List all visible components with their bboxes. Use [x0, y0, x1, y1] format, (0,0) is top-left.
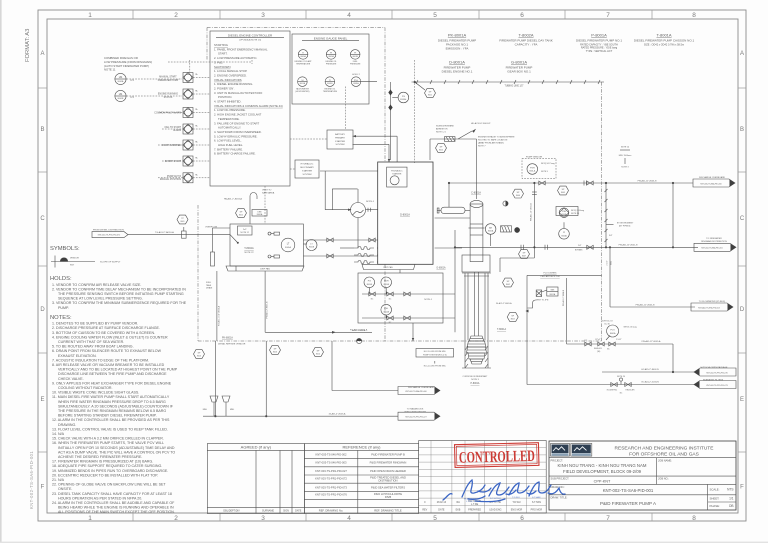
svg-text:DRAIN: DRAIN	[206, 287, 213, 290]
PI bubble	[559, 229, 570, 240]
svg-text:ONSITE.: ONSITE.	[58, 487, 72, 491]
svg-text:DATE: DATE	[295, 510, 302, 513]
svg-text:PSH: PSH	[530, 167, 535, 169]
svg-text:STATUS: STATUS	[164, 96, 173, 99]
svg-text:PRESSURE: PRESSURE	[326, 64, 337, 66]
svg-text:8001B: 8001B	[309, 247, 315, 249]
svg-text:ACT AS A DUMP VALVE. THE PIC W: ACT AS A DUMP VALVE. THE PIC WILL HAVE A…	[58, 450, 175, 454]
svg-text:14. N/A: 14. N/A	[52, 432, 65, 436]
svg-text:A: A	[740, 51, 744, 57]
svg-text:8002: 8002	[506, 284, 510, 286]
svg-text:10. VISIBLE WASTE CONE INCLUDE: 10. VISIBLE WASTE CONE INCLUDE SIGHT GLA…	[52, 391, 139, 395]
inline filter/valve	[182, 231, 187, 238]
svg-text:KNT-002-TS-SA6-PID-001: KNT-002-TS-SA6-PID-001	[29, 451, 34, 509]
svg-text:NOTE 9: NOTE 9	[541, 171, 548, 173]
svg-text:TO FLOWMETER (FT-8001): TO FLOWMETER (FT-8001)	[699, 301, 726, 303]
svg-text:SCALE:: SCALE:	[710, 488, 720, 492]
svg-text:NOTE 3: NOTE 3	[471, 379, 479, 381]
vertical drains from boundary	[214, 341, 216, 416]
pump basket (stacked cone impeller)	[469, 336, 484, 341]
svg-text:8001A: 8001A	[488, 230, 494, 233]
svg-text:1. VENDOR TO CONFIRM AIR REL: 1. VENDOR TO CONFIRM AIR RELEASE VALVE S…	[52, 283, 141, 287]
dashed signal from note to logic column	[168, 61, 252, 63]
svg-text:6: 6	[520, 515, 524, 522]
grid row letters right	[740, 51, 745, 491]
svg-text:PCV: PCV	[610, 329, 615, 331]
svg-text:DISCHARGE OVERBOARD: DISCHARGE OVERBOARD	[699, 176, 726, 179]
svg-text:B: B	[40, 127, 44, 133]
svg-text:FROM DIESEL DISTRIBUTION: FROM DIESEL DISTRIBUTION	[93, 230, 124, 232]
svg-text:5. TO BE ROUTED AWAY FROM BO: 5. TO BE ROUTED AWAY FROM BOAT LANDING.	[52, 345, 134, 349]
svg-text:SECONDARY: SECONDARY	[300, 166, 314, 169]
dashed vendor boundary around controller/panel	[207, 28, 385, 342]
svg-text:RESEARCH AND ENGINEERING INSTI: RESEARCH AND ENGINEERING INSTITUTE	[615, 446, 714, 452]
line y=372 from hypochlorite package	[602, 371, 694, 373]
svg-text:8. AIR RELEASE VALVE OR: 8. AIR RELEASE VALVE OR VACUUM BREAKER T…	[52, 363, 165, 367]
svg-text:ACHIEVE THE DESIRED FIREWATER: ACHIEVE THE DESIRED FIREWATER PRESSURE.	[58, 455, 142, 459]
svg-text:NOTE 4: NOTE 4	[424, 299, 432, 301]
svg-text:NOTE 12: NOTE 12	[241, 232, 250, 234]
svg-text:DETAIL REF/SEE VENDOR: DETAIL REF/SEE VENDOR	[218, 343, 246, 346]
svg-text:6. DRAIN POINT FROM SILEN: 6. DRAIN POINT FROM SILENCER ROUTE TO EX…	[52, 349, 162, 353]
svg-text:8001-A: 8001-A	[529, 170, 536, 173]
note text combined fire/gas	[104, 56, 152, 71]
dashed connectors to controller	[158, 78, 210, 178]
column ticks top	[133, 10, 652, 19]
svg-text:ENG MGR: ENG MGR	[511, 508, 523, 511]
cooling water stub at line start	[448, 183, 450, 207]
svg-text:FW-A01-12"-8003-N: FW-A01-12"-8003-N	[638, 179, 657, 182]
svg-text:2. VENDOR TO CONFIRM TIME DE: 2. VENDOR TO CONFIRM TIME DELAY MECHANIS…	[52, 287, 186, 291]
svg-text:SIGN: SIGN	[283, 510, 289, 513]
svg-text:DIESEL FIREWATER PUMP NO.1: DIESEL FIREWATER PUMP NO.1	[576, 39, 622, 43]
svg-text:PUMP VENDOR: PUMP VENDOR	[526, 157, 543, 159]
AE bubble	[485, 224, 496, 235]
logo petrovietnam 1	[551, 444, 570, 457]
svg-text:DIVB: DIVB	[385, 495, 391, 499]
svg-text:2. DISCHARGE PRESSURE AT SUR: 2. DISCHARGE PRESSURE AT SURFACE DISCHAR…	[52, 326, 160, 330]
svg-text:8003: 8003	[511, 318, 515, 320]
svg-text:9. ONLY APPLIES FOR HEAT E: 9. ONLY APPLIES FOR HEAT EXCHANGER TYPE …	[52, 381, 172, 385]
svg-text:NOTE 1, 6: NOTE 1, 6	[436, 132, 447, 134]
svg-text:3. BOTTOM OF CAISSON TO BE C: 3. BOTTOM OF CAISSON TO BE COVERED WITH …	[52, 331, 155, 335]
svg-text:8013: 8013	[197, 355, 201, 357]
svg-text:1: 1	[88, 12, 92, 19]
svg-text:4: 4	[347, 12, 351, 19]
svg-text:HS: HS	[119, 92, 123, 96]
svg-text:NOTE 16, 18: NOTE 16, 18	[601, 321, 612, 323]
svg-text:FAIL TO START: FAIL TO START	[165, 126, 182, 129]
svg-text:16, 30: 16, 30	[604, 323, 609, 325]
svg-text:1/1: 1/1	[729, 497, 734, 501]
logic diamond column	[183, 73, 193, 83]
svg-text:CONTROLLED: CONTROLLED	[459, 448, 535, 467]
exit line 3: y=307 to flowmeter	[610, 306, 695, 308]
flex hoses to engine	[354, 247, 374, 250]
svg-text:JOB NAME:: JOB NAME:	[658, 458, 672, 462]
dashed boundary bottom	[198, 340, 602, 342]
svg-text:8001A: 8001A	[550, 293, 556, 296]
svg-text:STARTER: STARTER	[302, 169, 312, 172]
svg-text:8008-003: 8008-003	[594, 348, 602, 350]
svg-text:PG: PG	[368, 281, 371, 283]
svg-text:PUMP SYSTEM (HOLD 3): PUMP SYSTEM (HOLD 3)	[423, 354, 447, 356]
svg-text:SYMBOLS:: SYMBOLS:	[50, 246, 80, 252]
svg-text:C: C	[40, 216, 45, 222]
svg-text:REFERENCE (if any): REFERENCE (if any)	[342, 445, 381, 450]
svg-text:S.T.HAN: S.T.HAN	[532, 501, 541, 504]
svg-text:8015: 8015	[439, 149, 443, 151]
svg-text:LEAD ENG: LEAD ENG	[489, 508, 501, 511]
svg-text:SIMULTANEOUSLY. A 20 SECONDS: SIMULTANEOUSLY. A 20 SECONDS (ADJUSTABLE…	[58, 404, 174, 408]
svg-text:HYDRAULIC: HYDRAULIC	[391, 170, 403, 173]
svg-text:T-8002A: T-8002A	[518, 33, 533, 38]
heat exchanger horizontal vessel	[441, 207, 465, 213]
svg-text:KNT-002-TS-PR1-PID-073: KNT-002-TS-PR1-PID-073	[706, 385, 727, 387]
svg-text:COMMON FAULT ALARM: COMMON FAULT ALARM	[154, 112, 181, 115]
svg-text:NOTE 7: NOTE 7	[478, 146, 486, 148]
starter system connection lines	[353, 135, 398, 137]
svg-text:24. ALARM IN THE CONTROLLER: 24. ALARM IN THE CONTROLLER SHALL BE AUD…	[52, 501, 175, 505]
line y=384.5 from seawater filters	[527, 384, 694, 386]
svg-text:13. FLOAT LEVEL CONTROL VALVE: 13. FLOAT LEVEL CONTROL VALVE IS USED TO…	[52, 427, 168, 431]
svg-text:3/4": 3/4"	[609, 235, 613, 237]
exit line 2: y=247 to firewater ringmain	[455, 246, 698, 248]
svg-text:ENGINE RUNNING: ENGINE RUNNING	[158, 94, 178, 96]
svg-text:PUMP.: PUMP.	[58, 306, 69, 310]
level transmitters	[281, 238, 295, 252]
row ticks right	[738, 88, 746, 452]
recirculation loop	[566, 278, 568, 344]
svg-text:P&ID SEA WATER FILTERS: P&ID SEA WATER FILTERS	[371, 485, 405, 489]
svg-text:8. BATTERY CHARGE FAILURE.: 8. BATTERY CHARGE FAILURE.	[214, 152, 256, 156]
hexagons on boundary	[194, 350, 205, 359]
svg-text:VENT TO JPN: VENT TO JPN	[536, 299, 549, 301]
svg-text:8014: 8014	[316, 353, 320, 355]
svg-text:3. UNIT IN MANUAL/AUTO/TEST/O: 3. UNIT IN MANUAL/AUTO/TEST/OFF	[214, 91, 263, 95]
svg-text:2: 2	[174, 515, 178, 522]
svg-text:XO-A01-2"-5203-N: XO-A01-2"-5203-N	[641, 381, 659, 384]
svg-text:ELC-10.09D FROM MSL: ELC-10.09D FROM MSL	[424, 366, 447, 368]
svg-text:C-8001A: C-8001A	[471, 192, 481, 195]
svg-text:KNT-002-TS-SA6-PID-001: KNT-002-TS-SA6-PID-001	[603, 488, 654, 493]
svg-text:NOTE 22: NOTE 22	[244, 252, 254, 254]
svg-text:NOTES:: NOTES:	[50, 315, 72, 321]
svg-text:PROJECT:: PROJECT:	[551, 458, 564, 462]
svg-text:8001: 8001	[181, 221, 185, 223]
svg-text:PSE: PSE	[562, 211, 567, 213]
svg-text:KNT-003-TS-PR1-PID-072: KNT-003-TS-PR1-PID-072	[315, 476, 347, 480]
svg-text:FORMAT: A3: FORMAT: A3	[25, 29, 31, 62]
svg-text:HY-AF5-2"-8402-N: HY-AF5-2"-8402-N	[641, 368, 659, 371]
svg-text:COOLING WITHOUT RADIATOR.: COOLING WITHOUT RADIATOR.	[58, 386, 113, 390]
svg-text:MANUAL START: MANUAL START	[159, 76, 177, 79]
svg-text:G-8001A: G-8001A	[511, 60, 527, 65]
svg-text:HS: HS	[119, 75, 123, 79]
fuel line into engine	[303, 239, 377, 241]
svg-text:STARTER: STARTER	[335, 140, 345, 143]
svg-text:EMISSION : YFA: EMISSION : YFA	[446, 47, 469, 51]
svg-text:DBL/DEPT/DIV: DBL/DEPT/DIV	[223, 510, 240, 513]
svg-text:6: 6	[520, 12, 524, 19]
svg-text:CURRENT WITH THAT OF SEA WATER: CURRENT WITH THAT OF SEA WATER.	[58, 340, 124, 344]
svg-text:PREPARED: PREPARED	[468, 508, 481, 511]
svg-text:T-8001A: T-8001A	[656, 33, 671, 38]
svg-text:ENGINE GAUGE PANEL: ENGINE GAUGE PANEL	[314, 37, 348, 41]
svg-text:8001A: 8001A	[285, 246, 291, 249]
svg-text:DIESEL ENGINE CONTROLLER: DIESEL ENGINE CONTROLLER	[228, 34, 273, 38]
svg-text:PRESSURE: PRESSURE	[350, 64, 361, 66]
svg-text:REF. DRAWING TITLE: REF. DRAWING TITLE	[374, 509, 402, 513]
svg-text:VENT TO: VENT TO	[262, 190, 272, 192]
svg-text:ALARM: ALARM	[173, 129, 181, 132]
caisson outer walls	[464, 273, 466, 368]
SP hexagon below junction	[519, 250, 530, 259]
svg-text:SAFE AREA: SAFE AREA	[262, 192, 275, 195]
svg-text:KNT-002-TS-PR1-PID-072: KNT-002-TS-PR1-PID-072	[98, 235, 120, 237]
svg-text:19. MINIMIZED BENDS IN PIPES R: 19. MINIMIZED BENDS IN PIPES RUN TO OVER…	[52, 469, 168, 473]
svg-text:HOLD 2: HOLD 2	[352, 74, 360, 76]
svg-text:8011: 8011	[428, 94, 432, 96]
svg-text:INITIALLY OPEN FOR 10 SECONDS: INITIALLY OPEN FOR 10 SECONDS (ADJUSTABL…	[58, 446, 175, 450]
svg-text:KNT-003-TS-PR1-PID-076: KNT-003-TS-PR1-PID-076	[315, 493, 347, 497]
gauge bubbles row 2	[295, 77, 309, 93]
svg-text:17. FIREWATER RINGMAIN IS PRES: 17. FIREWATER RINGMAIN IS PRESSURIZED AT…	[52, 460, 153, 464]
svg-text:8001AL: 8001AL	[400, 98, 406, 101]
svg-text:(AWAY FROM AIR INTAKE): (AWAY FROM AIR INTAKE)	[478, 142, 504, 145]
svg-text:PW-A01-2"-8004-N: PW-A01-2"-8004-N	[562, 289, 565, 306]
svg-text:START INHIBITED: START INHIBITED	[162, 144, 182, 147]
svg-text:4. ENGINE COOLING WATER F: 4. ENGINE COOLING WATER FLOW (INLET & OU…	[52, 335, 168, 339]
svg-text:8: 8	[692, 12, 696, 19]
grid column numbers bottom	[88, 515, 696, 522]
svg-text:TO HAZARDOUS: TO HAZARDOUS	[407, 408, 424, 411]
hand switch HS manual start	[115, 73, 135, 84]
svg-text:20. ECCENTRIC REDUCER TO BE IN: 20. ECCENTRIC REDUCER TO BE INSTALLED WI…	[52, 473, 158, 477]
svg-text:3: 3	[261, 12, 265, 19]
arrow to atmosphere	[458, 131, 472, 139]
vertical x=610 down to flowmeter line	[609, 247, 611, 307]
grid row letters left	[40, 51, 45, 491]
svg-text:21. N/A: 21. N/A	[52, 478, 65, 482]
svg-text:TG-A01-2"-AD16-A: TG-A01-2"-AD16-A	[155, 231, 174, 234]
gauge bubbles row 1	[295, 50, 313, 66]
svg-text:CPP-KNT: CPP-KNT	[594, 480, 611, 484]
svg-text:VERTICALLY AND TO BE LOCATED A: VERTICALLY AND TO BE LOCATED AT HIGHEST …	[58, 368, 178, 372]
supply line down from tank left to engine	[235, 266, 237, 271]
svg-text:FO-A01-2"-8002-A: FO-A01-2"-8002-A	[350, 329, 368, 332]
svg-text:(BY PIPING): (BY PIPING)	[619, 226, 631, 228]
svg-text:2. ENGINE OVERSPEED.: 2. ENGINE OVERSPEED.	[214, 73, 247, 77]
svg-text:BEFORE STARTING STANDBY DIESEL: BEFORE STARTING STANDBY DIESEL FIREWATER…	[58, 414, 157, 418]
svg-text:18. ADEQUATE PIPE SUPPORT REQU: 18. ADEQUATE PIPE SUPPORT REQUIRED TO CA…	[52, 464, 162, 468]
row ticks left	[38, 88, 47, 452]
svg-text:FW-A01-12"-8005-N: FW-A01-12"-8005-N	[636, 303, 655, 306]
svg-text:B: B	[740, 127, 744, 133]
svg-text:P&ID FIREWATER RINGMAIN: P&ID FIREWATER RINGMAIN	[370, 461, 407, 465]
drip pan	[226, 266, 304, 271]
svg-text:8006: 8006	[516, 195, 520, 197]
svg-text:ENGINE EXHAUST TO ATMOSPHERE: ENGINE EXHAUST TO ATMOSPHERE	[478, 136, 515, 139]
right mini column	[707, 484, 709, 510]
svg-text:8007: 8007	[522, 255, 526, 257]
svg-text:KNT-003-TS-PR1-PID-073: KNT-003-TS-PR1-PID-073	[315, 485, 347, 489]
right hexagon	[558, 186, 569, 195]
svg-text:5. LOW HYDRAULIC PRESSURE.: 5. LOW HYDRAULIC PRESSURE.	[214, 134, 258, 138]
logo petrovietnam 2	[571, 444, 592, 457]
PSE diamond	[559, 208, 569, 218]
svg-text:7. ACOUSTIC INSULATION TO ED: 7. ACOUSTIC INSULATION TO EDGE OF THE PL…	[52, 358, 149, 362]
hexagon + tag near vent	[236, 209, 247, 218]
svg-text:FO-A01-1 1/2"-8002-A: FO-A01-1 1/2"-8002-A	[218, 305, 221, 326]
svg-text:EKB: EKB	[456, 508, 461, 511]
svg-text:34-A01-4"-8003-A: 34-A01-4"-8003-A	[329, 413, 346, 416]
svg-text:CAPACITY : YFA: CAPACITY : YFA	[515, 43, 538, 47]
svg-text:L.T.DE: L.T.DE	[466, 501, 473, 503]
svg-text:E: E	[40, 397, 44, 403]
svg-text:D-8001A: D-8001A	[400, 214, 410, 217]
grid column numbers top	[88, 12, 696, 19]
scan edge shading	[0, 0, 2, 543]
svg-text:NOTE 11: NOTE 11	[104, 68, 116, 72]
svg-text:ECCENTRIC: ECCENTRIC	[607, 390, 618, 392]
svg-text:DRIP PAN: DRIP PAN	[383, 266, 393, 269]
PG bubble	[398, 92, 409, 103]
svg-text:DISCHARGE LINE BETWEEN THE: DISCHARGE LINE BETWEEN THE FIRE PUMP AND…	[58, 372, 167, 376]
svg-text:T.D.WU: T.D.WU	[512, 501, 521, 504]
svg-text:SYSTEM: SYSTEM	[336, 144, 345, 146]
svg-text:1/2": 1/2"	[584, 340, 587, 342]
spark arrestor inline	[445, 137, 456, 142]
svg-text:IFA: IFA	[456, 501, 460, 504]
svg-text:DIESEL FIREWATER PUMP CAISSON: DIESEL FIREWATER PUMP CAISSON NO.1	[634, 39, 695, 43]
svg-text:MIN. 1500mm: MIN. 1500mm	[619, 155, 632, 157]
svg-text:8005: 8005	[561, 192, 565, 194]
svg-text:7: 7	[606, 12, 610, 19]
svg-text:KNT-003-TS-046-PID-002: KNT-003-TS-046-PID-002	[315, 453, 347, 457]
svg-text:HD-AC3-10"-8001-IP: HD-AC3-10"-8001-IP	[471, 122, 491, 125]
svg-text:F: F	[740, 485, 744, 491]
svg-text:P-8001A: P-8001A	[591, 33, 607, 38]
svg-text:BEING HEARD WHILE THE ENGINE I: BEING HEARD WHILE THE ENGINE IS RUNNING …	[58, 506, 174, 510]
svg-text:5: 5	[433, 12, 437, 19]
svg-text:FW-A01-10"-8001-N: FW-A01-10"-8001-N	[530, 202, 533, 221]
svg-text:FIELD DEVELOPMENT, BLOCK 09-2/: FIELD DEVELOPMENT, BLOCK 09-2/09	[563, 469, 642, 474]
svg-text:AUTOMATICALLY.: AUTOMATICALLY.	[218, 126, 241, 130]
svg-text:8016: 8016	[273, 351, 277, 353]
svg-text:8001B: 8001B	[118, 98, 124, 100]
ticked boundary line top	[412, 81, 605, 83]
svg-text:NTS: NTS	[727, 488, 733, 492]
svg-text:TEMPERATURE: TEMPERATURE	[323, 90, 338, 93]
row 1	[364, 277, 375, 288]
svg-text:PSH: PSH	[384, 281, 389, 283]
vertical connecting line x=673	[672, 183, 674, 247]
svg-text:PG: PG	[402, 96, 405, 98]
svg-text:NOTE 20: NOTE 20	[617, 376, 625, 378]
svg-text:TANK: TANK	[206, 284, 212, 287]
svg-text:SILENCER/SPARK: SILENCER/SPARK	[436, 125, 454, 128]
svg-text:2: 2	[174, 12, 178, 19]
svg-text:VENDOR: VENDOR	[70, 258, 79, 260]
svg-text:KNT: KNT	[70, 265, 75, 267]
svg-text:8005: 8005	[611, 261, 613, 265]
row 2	[381, 304, 392, 315]
svg-text:L.T.DE: L.T.DE	[471, 503, 479, 506]
svg-text:8001A: 8001A	[328, 55, 334, 58]
svg-text:MML: MML	[230, 409, 234, 411]
funnels	[210, 396, 218, 405]
svg-text:DRAW. NO.:: DRAW. NO.:	[551, 485, 566, 489]
svg-text:T.D.WU: T.D.WU	[512, 497, 520, 499]
svg-text:SEQUENCE AT LOW LEVEL PRESSURE: SEQUENCE AT LOW LEVEL PRESSURE SETTING.	[58, 297, 143, 301]
svg-text:DATE: DATE	[438, 508, 445, 511]
svg-text:WHEN FIRE WATER RINGMAIN P: WHEN FIRE WATER RINGMAIN PRESSURE DROP T…	[58, 400, 166, 404]
svg-text:SI: SI	[301, 80, 303, 82]
column ticks bottom	[133, 513, 652, 521]
riser continues down from line2 to line3 region	[533, 247, 535, 258]
svg-text:ELC-10.09D FROM MSL: ELC-10.09D FROM MSL	[424, 351, 447, 353]
svg-text:GEAR BOX NO.1: GEAR BOX NO.1	[507, 70, 531, 74]
svg-text:8001A: 8001A	[300, 55, 306, 58]
svg-text:PK-8001A: PK-8001A	[448, 33, 467, 38]
svg-text:FOR OFFSHORE OIL AND GAS: FOR OFFSHORE OIL AND GAS	[629, 452, 699, 458]
svg-text:7: 7	[606, 515, 610, 522]
svg-text:D: D	[40, 307, 45, 313]
dashed vertical x415	[414, 60, 416, 163]
svg-text:F: F	[41, 485, 45, 491]
svg-text:DRAW. TITLE:: DRAW. TITLE:	[551, 495, 568, 499]
svg-text:1: 1	[88, 515, 92, 522]
svg-text:SCOPE OF SUPPLY: SCOPE OF SUPPLY	[100, 262, 121, 264]
svg-text:BY INSTRUMENT: BY INSTRUMENT	[617, 222, 634, 224]
svg-text:TO FIREWATER: TO FIREWATER	[706, 237, 722, 240]
svg-text:A: A	[40, 51, 44, 57]
svg-text:REF. DRAWING No.: REF. DRAWING No.	[319, 509, 344, 513]
svg-text:1. DENOTES TO BE SUPPLIED BY: 1. DENOTES TO BE SUPPLIED BY PUMP VENDOR…	[52, 322, 138, 326]
svg-text:C: C	[740, 216, 745, 222]
svg-text:CORROSION RESISTANT: CORROSION RESISTANT	[463, 375, 489, 378]
svg-text:PUMP AUTO/: PUMP AUTO/	[167, 175, 181, 178]
svg-text:SUB PROJECT:: SUB PROJECT:	[551, 477, 570, 481]
dark teardrop	[515, 227, 520, 232]
svg-text:DIESEL ENGINE NO.1: DIESEL ENGINE NO.1	[442, 70, 473, 74]
svg-text:P-8001A: P-8001A	[471, 382, 480, 385]
svg-text:DRAWING.: DRAWING.	[58, 423, 76, 427]
svg-text:8001A: 8001A	[257, 213, 263, 216]
svg-text:THE PRESSURE SENSING SWITCH BE: THE PRESSURE SENSING SWITCH BEFORE INITI…	[58, 292, 184, 296]
svg-text:16. WHEN THE FIREWATER PUMP: 16. WHEN THE FIREWATER PUMP STARTS, THE …	[52, 441, 164, 445]
svg-text:KNT-003-TS-046-PID-003: KNT-003-TS-046-PID-003	[315, 461, 347, 465]
svg-text:BATTERY: BATTERY	[335, 133, 345, 136]
exhaust pipe from silencer top	[476, 139, 478, 199]
svg-text:8001A: 8001A	[300, 82, 306, 85]
svg-text:8: 8	[692, 515, 696, 522]
svg-text:(HOUR METER): (HOUR METER)	[295, 91, 309, 93]
svg-text:22. OPENING OF GLOBE VALVE: 22. OPENING OF GLOBE VALVE ON BACKFLOW L…	[52, 483, 166, 487]
svg-text:15. CHECK VALVE WITH A 3.2 MM: 15. CHECK VALVE WITH A 3.2 MM ORIFICE DR…	[52, 437, 164, 441]
svg-text:TEMPERATURE: TEMPERATURE	[296, 63, 311, 66]
svg-text:EXHAUST ELEVATION.: EXHAUST ELEVATION.	[58, 354, 97, 358]
svg-text:8001B: 8001B	[353, 56, 359, 58]
svg-text:P&ID FIREWATER PUMP B: P&ID FIREWATER PUMP B	[371, 453, 405, 457]
svg-text:S.T.HAN: S.T.HAN	[532, 496, 541, 499]
svg-text:FIREWATER PUMP: FIREWATER PUMP	[158, 79, 179, 82]
hexagons right of caisson	[503, 278, 514, 287]
svg-text:SURNAME: SURNAME	[262, 510, 274, 513]
svg-text:REDUCER: REDUCER	[626, 390, 636, 392]
svg-text:FW-A01-10"-8001-N: FW-A01-10"-8001-N	[619, 244, 638, 247]
